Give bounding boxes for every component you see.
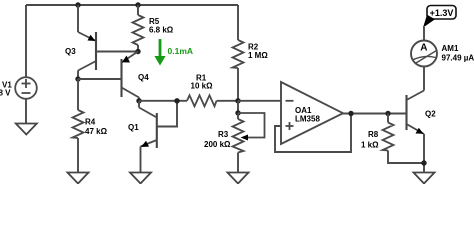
wire R1 right lead [217,100,239,102]
ground under R3 [228,173,249,184]
label R1 value [191,74,214,91]
wire R2 bottom lead [237,68,239,101]
svg-text:LM358: LM358 [295,115,320,124]
wire Q2 emitter down [423,134,425,173]
transistor Q1 (NPN diode-connected) [139,101,157,148]
wire R4 bottom [77,138,79,173]
resistor R4 [73,110,84,138]
svg-text:Q3: Q3 [65,47,76,56]
ground under V1 [16,124,37,135]
potentiometer R3 [233,113,265,153]
node emitter/R8 [421,160,426,165]
transistor Q4 (PNP) [122,52,140,98]
svg-text:R3: R3 [218,130,229,139]
label R3 value [204,130,231,149]
node Q4/Q1 collectors [136,98,141,103]
wire Q3 collector to node [77,71,79,80]
wire top rail [26,4,238,6]
wire R2 top lead [237,5,239,40]
node on rail at x=78 [75,2,80,7]
resistor R2 [233,40,244,68]
ground under Q2 [414,173,435,184]
wire ammeter top [423,27,425,41]
wire R8 top lead [387,114,389,123]
label R8 value [361,130,379,150]
svg-text:200 kΩ: 200 kΩ [204,140,231,149]
svg-text:1 MΩ: 1 MΩ [248,51,268,60]
label R4 value [85,118,108,137]
resistor R8 [383,123,394,151]
svg-text:47 kΩ: 47 kΩ [85,127,108,136]
ammeter AM1 [411,41,437,67]
wire R4 top [77,79,79,110]
node R1/R2/op-amp minus [235,98,240,103]
node on rail at x=138 [135,2,140,7]
svg-text:A: A [420,42,427,53]
wire minus input [238,100,281,102]
wire node to R3 [237,101,239,113]
wire R5 bottom lead [137,45,139,52]
wire collector node to R1 [139,100,187,102]
wire Q2 collector up [423,67,425,91]
svg-text:R4: R4 [85,118,96,127]
wire Q1 base loop [157,101,177,127]
node R5 bottom [135,49,140,54]
svg-text:R8: R8 [368,130,379,139]
wire V1 bottom [25,99,27,124]
wire V1 top [25,5,27,77]
transistor Q3 (PNP) [78,32,96,71]
current annotation arrow 0.1mA [154,39,193,66]
svg-text:10 kΩ: 10 kΩ [191,82,214,91]
node output [348,111,353,116]
node R3 top [235,110,240,115]
svg-text:Q2: Q2 [425,110,436,119]
svg-text:6.8 kΩ: 6.8 kΩ [149,26,174,35]
svg-text:Q4: Q4 [138,73,149,82]
wire Q3 base to R5 node [96,51,138,53]
label R2 value [248,43,268,61]
wire plus input feedback loop [275,114,351,153]
ground under R4 [68,173,89,184]
wire R3 bottom [237,153,239,173]
svg-text:97.49 µA: 97.49 µA [442,54,474,63]
resistor R1 [187,95,217,106]
node Q3 collector / Q4 base [75,76,80,81]
svg-text:0.1mA: 0.1mA [168,46,194,56]
wire Q4 base [78,78,122,80]
wire Q1 emitter down [140,147,142,173]
voltage source V1 [15,77,37,99]
ground under Q1 [130,173,151,184]
wire R8 bottom to emitter node [388,151,424,164]
wire op-amp output [343,113,407,115]
svg-text:AM1: AM1 [442,44,459,53]
label V1 value [0,81,12,98]
label R5 value [149,17,174,35]
svg-text:1 kΩ: 1 kΩ [361,141,379,150]
transistor Q2 (NPN) [407,91,425,135]
svg-text:Q1: Q1 [128,123,139,132]
svg-text:8 V: 8 V [0,89,11,98]
label AM1 value [442,44,474,63]
svg-text:+1.3V: +1.3V [430,8,454,18]
op-amp OA1 [281,82,343,144]
net flag +1.3V [423,6,456,28]
wire Q4 collector to node [138,98,140,101]
node Q1 base/R1 [174,98,179,103]
wire Q3 emitter column [77,5,79,32]
wire R5 top lead [137,5,139,15]
resistor R5 [133,15,144,45]
node R8 top [385,111,390,116]
